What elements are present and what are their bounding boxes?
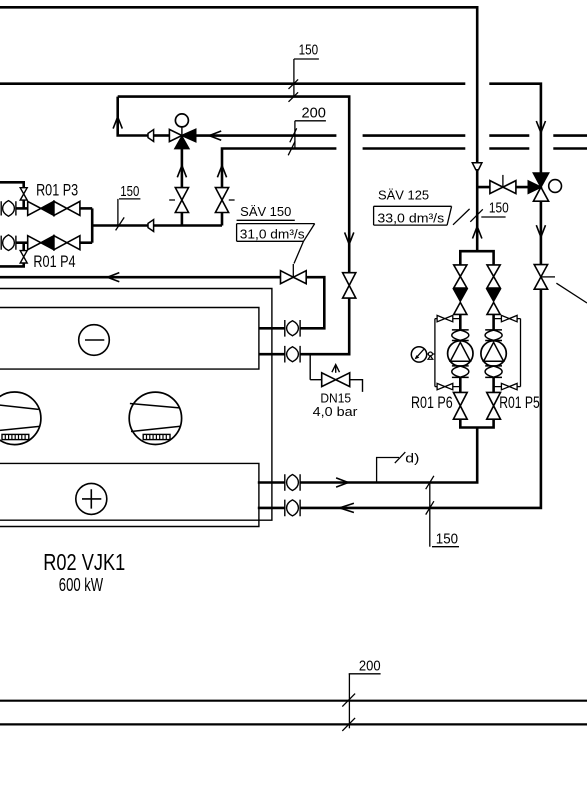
- reducer on that wire: [148, 130, 154, 142]
- shutoff valve P6 bottom: [453, 392, 467, 419]
- wire top supply main: [0, 7, 477, 163]
- flow arrow down: [536, 121, 545, 133]
- 3-way control valve bottom black port: [175, 136, 189, 148]
- compressor left: [0, 392, 41, 445]
- actuator circle right: [549, 180, 562, 193]
- shutoff valve on V2: [534, 265, 547, 290]
- pump column left verticals: [459, 314, 462, 392]
- shutoff valve on x=349: [343, 273, 356, 298]
- wire exchanger top port 1: [259, 327, 285, 330]
- flex below pump P6: [452, 366, 469, 378]
- shutoff valve P6 top: [454, 265, 467, 288]
- 3-way valve bottom open port: [533, 187, 548, 201]
- wire exchanger top port 2: [259, 298, 349, 354]
- flex above pump P5: [485, 330, 502, 341]
- check valve P4: [28, 236, 41, 250]
- 3-way valve left black port: [528, 181, 541, 193]
- safety valve: [322, 373, 350, 387]
- label d): [377, 452, 420, 483]
- label SAV 150 with box: [237, 205, 315, 263]
- svg-text:R01 P5: R01 P5: [499, 393, 540, 412]
- flow arrow down on V2: [536, 225, 545, 237]
- 3-way valve top black port: [533, 173, 548, 187]
- shutoff valve P5 top: [487, 265, 500, 288]
- flow arrow up on vertical: [473, 227, 482, 239]
- wire exchanger bottom port 2 (return): [258, 289, 541, 508]
- gauge manifold left vertical: [434, 319, 436, 387]
- heat exchanger bottom inner box: [0, 463, 259, 526]
- flex connector port3: [285, 474, 300, 491]
- handle tick: [541, 276, 555, 278]
- flow arrow up on Vb: [217, 166, 226, 178]
- wire reducer to valve: [154, 134, 170, 137]
- pump column right verticals: [492, 314, 495, 392]
- small valve on stub: [20, 188, 27, 200]
- label 150 right: [470, 199, 508, 221]
- svg-text:4,0 bar: 4,0 bar: [313, 405, 358, 419]
- wire second top main left segment: [0, 82, 465, 85]
- svg-text:600 kW: 600 kW: [59, 575, 103, 595]
- flex connector port2: [285, 346, 300, 363]
- wire valve to corner and down: [300, 277, 324, 328]
- pump P6: [448, 341, 473, 366]
- check valve P5: [487, 289, 500, 301]
- shutoff valve on branch: [490, 181, 516, 194]
- shutoff valve P5 bottom: [487, 392, 501, 419]
- svg-text:DN15: DN15: [320, 391, 351, 405]
- spring arrow up: [335, 366, 337, 373]
- svg-text:R01 P4: R01 P4: [33, 252, 75, 271]
- valve stem: [292, 264, 294, 277]
- shutoff valve on Va: [175, 188, 188, 213]
- flow arrow down on x=349: [345, 232, 354, 244]
- condenser plus symbol: [76, 483, 107, 514]
- wire vertical x=117.7: [118, 97, 148, 136]
- handle tick Va: [169, 199, 175, 201]
- actuator stem: [181, 127, 183, 135]
- wire flex to check valve: [16, 207, 28, 210]
- flow arrow up on x=117.7: [113, 117, 122, 129]
- gauge manifold right bottom stub: [494, 383, 521, 389]
- pressure gauge: [411, 347, 426, 362]
- svg-text:SÄV 125: SÄV 125: [378, 189, 429, 203]
- leader to off-page label: [556, 283, 587, 303]
- svg-text:33,0 dm³/s: 33,0 dm³/s: [377, 212, 444, 226]
- wire to junction: [80, 241, 92, 244]
- wire vertical Va x=181.9: [181, 149, 184, 226]
- actuator circle: [175, 114, 188, 127]
- flow arrow left on return: [107, 273, 119, 282]
- pump P4 flex connector: [1, 235, 16, 251]
- pump P5: [481, 341, 506, 366]
- shutoff valve on Vb: [215, 188, 228, 213]
- stub to branch: [22, 200, 25, 208]
- junction vertical: [91, 208, 94, 242]
- label 150 mid-left: [116, 183, 141, 231]
- svg-text:150: 150: [489, 199, 509, 216]
- gauge manifold left bottom stub: [435, 383, 460, 389]
- label SAV 125 with box: [374, 189, 470, 226]
- gauge manifold right vertical: [520, 319, 522, 387]
- check valve P3 (right half black): [28, 201, 41, 215]
- flow arrow up on Va: [177, 166, 186, 178]
- 3-way control valve left open port: [169, 129, 182, 141]
- valve stem: [502, 175, 504, 187]
- svg-text:d): d): [405, 452, 419, 466]
- gauge cock: [427, 352, 435, 359]
- flow arrow left on pipe1: [209, 131, 221, 140]
- svg-text:200: 200: [302, 105, 326, 122]
- wire H1 pumps to Vb: [92, 224, 222, 227]
- wire V2 from 3-way down: [540, 201, 543, 265]
- flex connector port1: [285, 320, 300, 337]
- gauge manifold left top stub: [435, 315, 460, 321]
- shutoff valve P3: [54, 201, 80, 215]
- label 150 bottom-mid: [426, 476, 459, 548]
- flow arrow right: [336, 478, 348, 487]
- wire upper branch line y=96.6: [118, 97, 350, 273]
- svg-text:R02 VJK1: R02 VJK1: [43, 549, 125, 575]
- gauge manifold right top stub: [494, 315, 521, 321]
- 3-way control valve right black port: [182, 129, 196, 141]
- pump header bottom: [460, 419, 493, 427]
- check valve P6: [454, 289, 467, 301]
- wire to junction: [80, 207, 92, 210]
- wire exchanger bottom port 1 (supply to pumps): [258, 427, 477, 482]
- svg-text:31,0 dm³/s: 31,0 dm³/s: [240, 228, 305, 242]
- evaporator minus symbol: [79, 325, 110, 356]
- svg-text:150: 150: [299, 41, 319, 58]
- DN15 safety valve branch: [310, 354, 322, 380]
- svg-text:SÄV 150: SÄV 150: [240, 205, 291, 219]
- compressor right: [129, 392, 181, 444]
- svg-text:R01 P6: R01 P6: [411, 393, 453, 412]
- wire vertical funnel to pump header: [476, 170, 479, 252]
- outlet: [350, 380, 363, 392]
- pump header top: [460, 251, 493, 265]
- pump P3 branch stub top: [0, 182, 24, 188]
- wire return line y=277.2: [0, 276, 281, 279]
- flex connector port4: [285, 500, 300, 517]
- pipe1 y=135.6 segments: [196, 134, 587, 137]
- heat exchanger outer box: [0, 289, 272, 521]
- flow arrow left on return: [340, 503, 354, 512]
- label 200 bottom: [342, 658, 380, 731]
- svg-text:200: 200: [359, 658, 381, 675]
- pipe2 y=148.5 segments: [222, 149, 587, 188]
- wire flex to check valve P4: [16, 241, 28, 244]
- shutoff valve P4: [54, 236, 80, 250]
- label 200 top: [288, 105, 326, 156]
- label 150 top: [289, 41, 319, 102]
- drain funnel on vertical: [472, 163, 482, 170]
- pump P3 flex connector: [1, 201, 16, 217]
- handle tick Vb: [229, 199, 235, 201]
- svg-text:R01 P3: R01 P3: [36, 180, 78, 199]
- heat exchanger top inner box: [0, 308, 259, 370]
- wire second top main right segment: [489, 84, 541, 174]
- flex above pump P6: [452, 330, 469, 341]
- wire branch y=187 from vertical to 3-way: [477, 186, 528, 189]
- pump P4 branch stub bottom: [22, 243, 25, 251]
- control valve SAV150: [281, 271, 307, 284]
- reducer on H1: [148, 220, 154, 232]
- flex below pump P5: [485, 366, 502, 378]
- wire vertical Vb x=222: [221, 212, 224, 225]
- bottom mains double line: [0, 701, 587, 725]
- svg-text:150: 150: [120, 183, 139, 200]
- svg-text:150: 150: [436, 531, 458, 548]
